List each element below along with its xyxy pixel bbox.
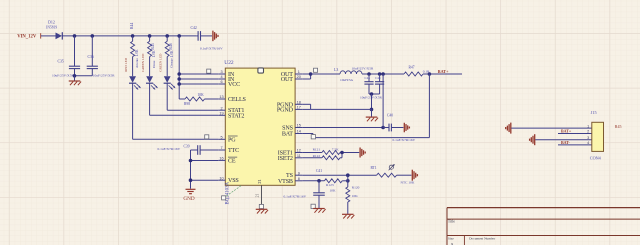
wire joining cap bottoms: [75, 75, 93, 77]
svg-text:4: 4: [587, 141, 589, 145]
wire LED 2 cathode to IC: [149, 83, 151, 115]
svg-text:BAT-: BAT-: [561, 140, 571, 145]
inductor L3 10uH/3A: [334, 68, 362, 82]
svg-text:0.1uF/X7R/16V: 0.1uF/X7R/16V: [200, 47, 223, 51]
wire to pin IN (3): [179, 73, 218, 75]
net label VIN_12V: [17, 33, 41, 39]
svg-text:6: 6: [220, 80, 222, 84]
svg-text:C43: C43: [365, 76, 371, 80]
pin 15 SNS: [282, 124, 302, 132]
wire pin1: [511, 127, 592, 129]
svg-text:15: 15: [297, 124, 301, 128]
wire VCC bus vertical: [178, 36, 180, 99]
svg-text:R45: R45: [151, 43, 155, 49]
svg-text:1N5819: 1N5819: [46, 26, 58, 30]
pin 6 VCC: [218, 80, 240, 88]
title block: [447, 208, 640, 245]
LED RED LED (Attente): [124, 57, 141, 90]
svg-text:5: 5: [220, 135, 222, 139]
svg-text:1: 1: [587, 124, 589, 128]
svg-text:STAT2: STAT2: [228, 113, 244, 119]
wire inductor to R47: [362, 73, 404, 75]
svg-text:PG: PG: [228, 137, 236, 143]
connector J15 CON4: [587, 110, 603, 160]
marker square on BAT wire: [311, 135, 315, 139]
svg-text:10K: 10K: [330, 189, 337, 193]
svg-text:8: 8: [298, 177, 300, 181]
wire SNS: [302, 127, 383, 129]
svg-text:10K: 10K: [352, 194, 359, 198]
svg-text:R122: R122: [313, 154, 321, 158]
pin 20 OUT: [281, 75, 302, 83]
thermistor RT1 NTC 10K: [371, 164, 415, 184]
wire PGND pins join: [302, 103, 310, 105]
wire TS: [302, 174, 376, 176]
svg-text:1.0K: 1.0K: [170, 50, 174, 57]
svg-text:19: 19: [219, 111, 223, 115]
pin 5 PG: [218, 135, 237, 143]
svg-text:C41: C41: [316, 169, 322, 173]
svg-text:10uF/25V/X5R: 10uF/25V/X5R: [52, 74, 74, 78]
wire VIN_12V to diode: [41, 35, 56, 37]
svg-text:OUT: OUT: [281, 77, 293, 83]
capacitor C44 10uF/25V/X5R: [360, 74, 384, 99]
svg-text:GREEN LED: GREEN LED: [141, 53, 145, 72]
marker square near C41 ground: [311, 204, 315, 208]
svg-text:R45: R45: [615, 124, 622, 129]
resistor R46 1.0K: [165, 36, 174, 58]
power symbol ISET: [359, 148, 361, 158]
svg-text:VTSB: VTSB: [278, 179, 293, 185]
power symbol battery pin3: [534, 134, 536, 145]
svg-text:21: 21: [256, 194, 260, 198]
svg-text:14: 14: [297, 130, 301, 134]
wire pin 21 pad: [261, 185, 263, 204]
svg-text:C40: C40: [387, 113, 393, 117]
svg-text:1: 1: [298, 70, 300, 74]
wire VSS to GND bus: [191, 179, 219, 181]
wire BAT+ down to BAT pin: [428, 74, 430, 138]
svg-text:16: 16: [219, 157, 223, 161]
ground earth below input caps: [69, 76, 81, 85]
svg-text:3: 3: [587, 136, 589, 140]
svg-text:C42: C42: [191, 26, 197, 30]
svg-text:13: 13: [219, 95, 223, 99]
svg-text:R123: R123: [326, 183, 334, 187]
LED GREEN LED (Charge): [159, 53, 176, 90]
svg-text:Size: Size: [448, 237, 454, 241]
svg-text:L3: L3: [334, 68, 338, 72]
resistor R44 1.0K: [130, 23, 139, 57]
svg-text:C44: C44: [375, 76, 381, 80]
wire R120 to ground: [347, 202, 349, 214]
wire down to PGND rail: [371, 94, 373, 109]
net label BAT+ (connector): [558, 129, 592, 134]
capacitor C42 0.1uF/X7R/16V: [191, 26, 224, 50]
power symbol after RT1: [411, 170, 413, 181]
wire OUT pins join: [302, 73, 310, 75]
svg-text:TTC: TTC: [228, 148, 239, 154]
pin 4 IN: [218, 75, 235, 83]
capacitor C36 10uF/25V/X5R: [87, 36, 116, 78]
wire TTC cap to GND vertical: [190, 150, 192, 189]
svg-text:GND: GND: [183, 196, 194, 202]
svg-text:20: 20: [297, 75, 301, 79]
diode D12 1N5819: [46, 20, 63, 40]
svg-text:Title: Title: [448, 220, 455, 224]
svg-text:C39: C39: [184, 144, 190, 148]
svg-text:BQ24103A: BQ24103A: [225, 181, 230, 204]
svg-text:0.1uF/X7R/16V: 0.1uF/X7R/16V: [158, 147, 181, 151]
resistor R122: [302, 154, 340, 160]
pin 13 CELLS: [218, 95, 246, 103]
svg-text:2: 2: [587, 130, 589, 134]
pin 17 PGND: [277, 106, 302, 114]
svg-text:0.1uF/X7R/16V: 0.1uF/X7R/16V: [284, 195, 307, 199]
svg-text:1.0K: 1.0K: [135, 49, 139, 56]
ground earth below R120: [342, 213, 354, 215]
svg-text:BAT: BAT: [282, 132, 293, 138]
wire LED 3 cathode to IC: [166, 83, 168, 110]
junction dots on output rail: [367, 72, 371, 76]
wire TS/VTSB junction vertical: [347, 175, 349, 187]
capacitor C40 0.1uF/X7R/16V: [383, 113, 416, 141]
capacitor C41 0.1uF/X7R/16V vertical: [284, 181, 325, 203]
ground earth below C41: [313, 208, 325, 210]
svg-text:NTC 10K: NTC 10K: [401, 180, 415, 184]
part name BQ24103A with leader: [222, 181, 242, 204]
capacitor C39 0.1uF/X7R/16V on TTC: [158, 144, 219, 154]
resistor R123 10K: [324, 179, 347, 193]
svg-text:BAT+: BAT+: [438, 69, 449, 74]
svg-text:R44: R44: [130, 23, 134, 29]
pin 8 VTSB: [278, 177, 302, 185]
svg-text:BAT+: BAT+: [561, 129, 572, 134]
svg-text:C35: C35: [58, 60, 64, 64]
svg-text:RT1: RT1: [371, 166, 377, 170]
wire pin3: [535, 139, 592, 141]
capacitor C43 10uF/25V/X5R: [352, 66, 374, 94]
wire PGND rail: [311, 108, 372, 110]
svg-text:R120: R120: [352, 186, 360, 190]
resistor R98 10K (CELLS): [179, 93, 218, 106]
pin 1 OUT: [281, 70, 302, 78]
ground GND power symbol: [183, 189, 195, 202]
svg-text:VIN_12V: VIN_12V: [17, 34, 37, 39]
svg-text:R98: R98: [184, 102, 190, 106]
svg-text:10uF/25V/X5R: 10uF/25V/X5R: [93, 74, 115, 78]
net label BAT- (connector): [558, 140, 592, 145]
resistor R47 0.1R: [404, 65, 430, 76]
marker square on PG wire: [205, 135, 209, 139]
ground earth below output caps: [366, 109, 378, 121]
marker square near OUT pins: [314, 68, 318, 72]
svg-text:CE: CE: [228, 158, 236, 164]
op-amp/IC U22 BQ24103A body: [225, 68, 295, 185]
wire BAT pin jog: [302, 133, 313, 135]
wire main input rail: [62, 35, 196, 37]
svg-text:CON4: CON4: [590, 155, 602, 160]
marker square on IC top edge (pin 21): [258, 68, 264, 73]
svg-text:10uH/3A: 10uH/3A: [340, 78, 354, 82]
marker square pin 21: [259, 204, 263, 208]
svg-text:7.5K: 7.5K: [332, 147, 339, 151]
svg-text:12: 12: [297, 149, 301, 153]
svg-text:CELLS: CELLS: [228, 97, 247, 103]
pin 19 STAT2: [218, 111, 244, 119]
svg-text:D12: D12: [48, 20, 55, 25]
svg-text:2: 2: [220, 106, 222, 110]
svg-text:R47: R47: [409, 65, 415, 69]
pin 10 VSS: [218, 176, 239, 184]
svg-text:21: 21: [257, 179, 262, 184]
svg-text:R121: R121: [313, 147, 321, 151]
power symbol after C42: [213, 31, 218, 42]
svg-text:0.1R: 0.1R: [423, 70, 430, 74]
svg-text:10: 10: [219, 176, 223, 180]
svg-text:J15: J15: [591, 110, 597, 115]
svg-text:0.1uF/X7R/16V: 0.1uF/X7R/16V: [393, 138, 416, 142]
pin 11 ISET2: [278, 154, 302, 162]
svg-text:Attente: Attente: [135, 58, 139, 68]
svg-text:GREEN LED: GREEN LED: [159, 53, 163, 72]
pin 7 TTC: [218, 146, 239, 154]
pin 12 ISET1: [278, 149, 302, 157]
wire cap bottoms join: [369, 93, 380, 95]
svg-text:Charge: Charge: [169, 58, 173, 68]
power symbol after C40: [403, 123, 405, 133]
power symbol battery pin1: [510, 123, 512, 134]
LED GREEN LED (Done): [141, 53, 158, 90]
svg-text:R46: R46: [169, 43, 173, 49]
marker square near IN pins: [207, 69, 211, 73]
svg-text:17: 17: [297, 106, 301, 110]
wire OUT rail to inductor: [311, 73, 340, 75]
svg-text:11: 11: [297, 154, 301, 158]
svg-text:ISET2: ISET2: [278, 156, 293, 162]
capacitor C35 10uF/25V/X5R: [52, 36, 80, 78]
pin 14 BAT: [282, 130, 302, 138]
pin 3 IN: [218, 70, 235, 78]
pin 9 TS: [286, 171, 302, 179]
pin 16 CE: [218, 157, 237, 165]
pin 18 PGND: [277, 100, 302, 108]
wire to pin VCC (6): [179, 83, 218, 85]
svg-text:3: 3: [220, 70, 222, 74]
wire CE to GND bus: [191, 160, 219, 162]
wire LED 1 cathode to IC: [132, 83, 134, 139]
wire R47 to BAT+: [423, 73, 462, 75]
resistor R121 7.5K: [302, 147, 340, 154]
svg-text:7: 7: [220, 146, 222, 150]
wire C41 to ground: [318, 203, 320, 208]
svg-text:4: 4: [220, 75, 222, 79]
svg-text:VCC: VCC: [228, 82, 240, 88]
svg-text:10K: 10K: [198, 93, 205, 97]
resistor R120 10K: [346, 186, 360, 202]
wire ISET join: [340, 157, 342, 159]
svg-text:PGND: PGND: [277, 107, 294, 113]
svg-text:U22: U22: [224, 60, 234, 66]
ground earth pin 21: [256, 209, 268, 214]
pin 2 STAT1: [218, 106, 244, 114]
svg-text:RED LED: RED LED: [124, 57, 128, 71]
svg-text:9: 9: [298, 171, 300, 175]
wire VTSB: [302, 180, 324, 182]
junction dots on input rail: [73, 34, 181, 38]
svg-text:1.0K: 1.0K: [152, 50, 156, 57]
svg-text:Document Number: Document Number: [469, 237, 496, 241]
svg-text:18: 18: [297, 100, 301, 104]
resistor R45 1.0K: [148, 36, 157, 58]
svg-text:Done: Done: [152, 60, 156, 68]
svg-text:10uF/25V/X5R: 10uF/25V/X5R: [352, 66, 374, 70]
wire to pin IN (4): [179, 78, 218, 80]
wire SNS up to output node: [382, 74, 384, 128]
svg-text:C36: C36: [88, 55, 94, 59]
